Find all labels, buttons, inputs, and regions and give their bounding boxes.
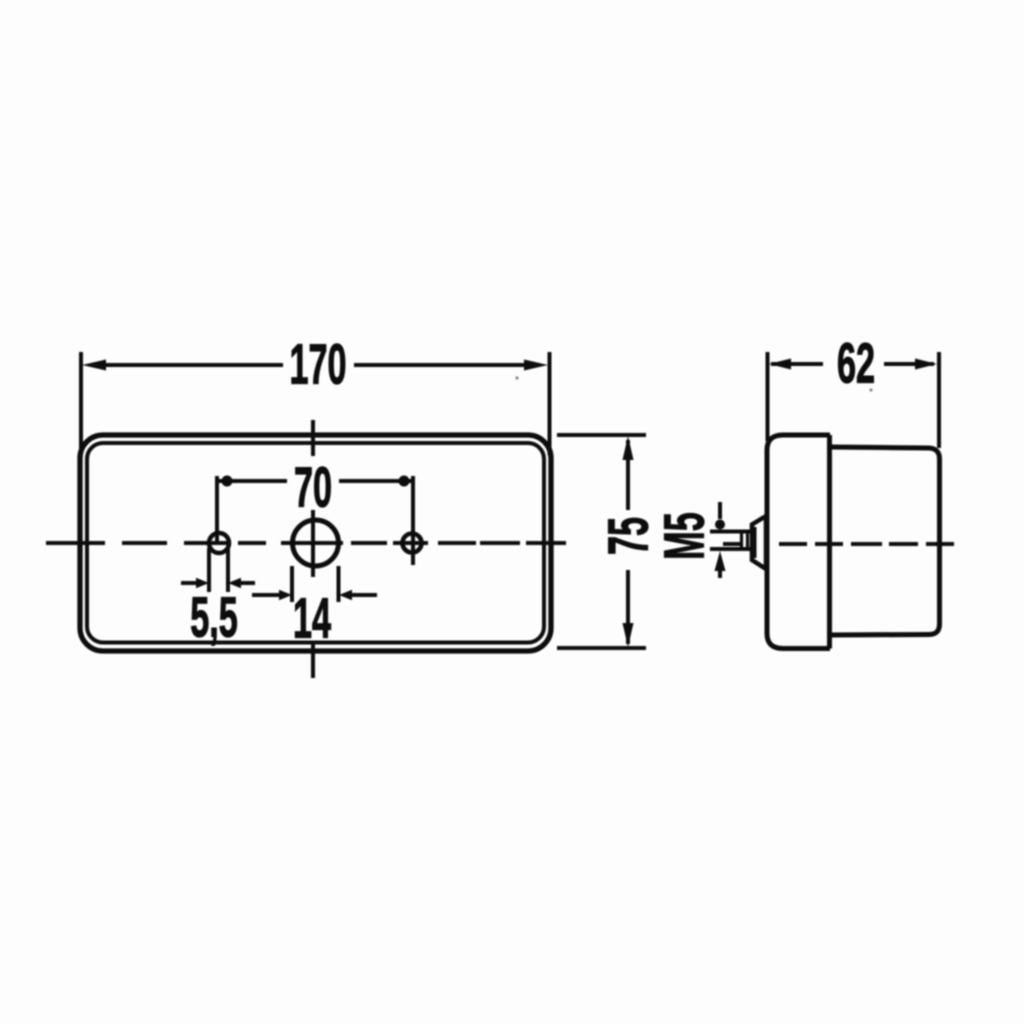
- svg-text:170: 170: [289, 331, 346, 395]
- svg-text:70: 70: [294, 454, 332, 518]
- svg-text:14: 14: [293, 585, 331, 649]
- svg-text:62: 62: [837, 330, 875, 394]
- svg-text:5,5: 5,5: [190, 584, 238, 648]
- svg-text:75: 75: [595, 517, 659, 555]
- svg-text:M5: M5: [651, 512, 715, 560]
